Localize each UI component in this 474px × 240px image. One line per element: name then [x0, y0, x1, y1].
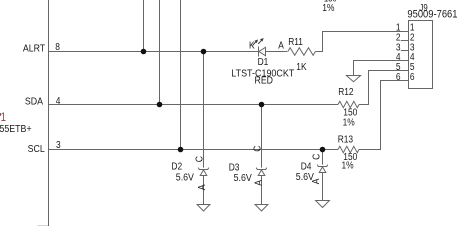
ground at J9 pin4: [346, 76, 360, 82]
wire J9 pin3 stub: [401, 50, 409, 52]
ground under D4: [316, 201, 330, 208]
junction ALRT net top: [141, 49, 147, 55]
svg-text:1%: 1%: [342, 160, 355, 172]
IC U1 body right edge: [48, 0, 50, 226]
wire D1 anode to R11: [266, 51, 288, 53]
wire D3 vertical from SDA: [261, 105, 263, 205]
junction SDA / D3: [259, 102, 265, 108]
LED D1 arrow 1: [253, 41, 257, 46]
wire R12 to J9 pin5: [359, 71, 409, 105]
svg-text:4: 4: [56, 95, 61, 107]
ground under D3: [255, 205, 268, 212]
wire D4 vertical from SCL: [322, 150, 324, 201]
svg-text:5.6V: 5.6V: [176, 172, 195, 184]
svg-text:SCL: SCL: [28, 143, 46, 155]
svg-text:150: 150: [324, 0, 337, 4]
junction SCL net top: [178, 147, 184, 153]
wire SCL vertical to top: [180, 0, 182, 150]
svg-text:5.6V: 5.6V: [234, 172, 253, 184]
svg-text:3: 3: [56, 139, 61, 151]
LED D1 cathode bar: [258, 47, 260, 57]
LED D1 arrow 2: [258, 39, 262, 44]
svg-text:R12: R12: [338, 86, 353, 98]
svg-text:1K: 1K: [296, 61, 307, 73]
junction SCL / D4: [320, 147, 326, 153]
junction ALRT / D2: [201, 49, 207, 55]
svg-text:95009-7661: 95009-7661: [407, 9, 457, 21]
svg-text:A: A: [278, 40, 284, 52]
wire SDA horizontal: [49, 104, 339, 106]
IC U1 body bottom edge (faint, at image crop): [38, 225, 49, 227]
svg-text:A: A: [253, 179, 265, 185]
zener D2 symbol: [198, 168, 209, 176]
LED D1 triangle: [259, 47, 266, 55]
svg-text:8: 8: [55, 41, 60, 53]
wire ALRT vertical to top: [143, 0, 145, 52]
svg-text:C: C: [252, 145, 264, 151]
wire R11 to J9 pin1: [315, 32, 408, 52]
ground under D2: [197, 205, 210, 212]
svg-text:RED: RED: [255, 75, 274, 87]
wire J9 pin4 to ground: [354, 61, 409, 76]
wire D2 vertical from ALRT: [203, 52, 205, 205]
svg-text:6: 6: [410, 71, 415, 83]
wire R13 to J9 pin6: [359, 81, 409, 150]
resistor R13 zigzag: [338, 146, 359, 152]
zener D3 symbol: [256, 168, 267, 176]
svg-text:R11: R11: [288, 36, 303, 48]
wire SDA vertical to top: [159, 0, 161, 105]
svg-text:1%: 1%: [343, 117, 356, 129]
svg-text:C: C: [311, 154, 323, 160]
svg-text:K: K: [249, 40, 255, 52]
resistor R11 zigzag: [288, 48, 316, 56]
svg-text:1%: 1%: [322, 2, 334, 13]
svg-text:A: A: [196, 184, 208, 190]
svg-text:SDA: SDA: [25, 96, 44, 108]
svg-text:A: A: [310, 178, 322, 184]
IC refdes clipped glyph sliver (red): [0, 113, 1, 116]
wire ALRT horizontal: [49, 51, 259, 53]
svg-text:55ETB+: 55ETB+: [0, 123, 32, 135]
svg-text:C: C: [194, 156, 206, 162]
zener D4 symbol: [317, 165, 328, 173]
connector J9 box: [409, 21, 433, 89]
resistor R12 zigzag: [338, 101, 359, 107]
wire SCL horizontal: [49, 149, 339, 151]
svg-text:ALRT: ALRT: [23, 43, 45, 55]
svg-text:1: 1: [1, 111, 6, 124]
wire J9 pin2 stub: [401, 40, 409, 42]
junction SDA net top: [157, 102, 163, 108]
svg-text:D1: D1: [258, 56, 269, 68]
svg-text:6: 6: [396, 71, 401, 83]
svg-text:R13: R13: [338, 134, 353, 146]
